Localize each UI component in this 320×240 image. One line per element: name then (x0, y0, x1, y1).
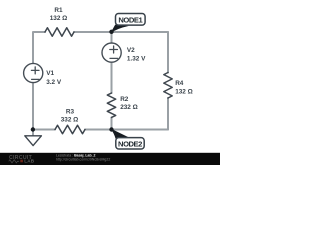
resistor R3 (55, 125, 85, 133)
node A junction dot top (109, 30, 113, 34)
svg-text:NODE2: NODE2 (118, 139, 142, 148)
svg-text:R3: R3 (66, 109, 75, 116)
svg-text:NODE1: NODE1 (118, 15, 143, 24)
voltage source V1 (24, 63, 43, 82)
label R3 value (61, 109, 79, 124)
wire top horizontal right segment (74, 31, 168, 33)
label R2 value (120, 96, 138, 111)
ground (25, 136, 42, 146)
svg-text:V1: V1 (46, 70, 54, 77)
footer CircuitLab logo (9, 155, 35, 164)
svg-text:V2: V2 (127, 47, 135, 54)
wire top horizontal left segment (33, 32, 45, 64)
voltage source V2 (102, 43, 121, 62)
svg-text:LAB: LAB (24, 159, 35, 164)
svg-text:332 Ω: 332 Ω (61, 116, 79, 123)
wire V2 to R2 (111, 62, 113, 93)
NODE1 label tail (110, 25, 129, 34)
svg-text:http://circuitlab.com/c/9Nc8vs: http://circuitlab.com/c/9Nc8vsMg22 (56, 158, 110, 162)
NODE2 label tail (110, 128, 129, 138)
svg-text:3.2 V: 3.2 V (46, 79, 62, 86)
node ground junction dot (31, 127, 35, 131)
footer bar (0, 153, 220, 165)
svg-text:R4: R4 (175, 80, 184, 87)
label R4 value (175, 80, 193, 96)
label V1 value (46, 70, 62, 86)
svg-text:1.32 V: 1.32 V (127, 56, 146, 63)
wire bottom horizontal (33, 129, 168, 131)
resistor R2 (107, 93, 115, 117)
resistor R1 (45, 28, 74, 36)
wire V2 branch top (111, 32, 113, 43)
label R1 value (50, 7, 68, 22)
wire right vertical bottom lead (167, 98, 169, 130)
resistor R4 (164, 73, 172, 99)
node B junction dot bottom (109, 127, 113, 131)
label V2 value (127, 47, 146, 63)
svg-text:R2: R2 (120, 96, 129, 103)
svg-text:132 Ω: 132 Ω (175, 88, 193, 95)
svg-text:232 Ω: 232 Ω (120, 104, 138, 111)
wire left vertical below V1 (32, 83, 34, 136)
svg-text:R1: R1 (54, 7, 63, 14)
wire R2 bottom lead (111, 118, 113, 130)
NODE1 label (116, 14, 146, 26)
NODE2 label (116, 138, 144, 149)
svg-text:132 Ω: 132 Ω (50, 15, 68, 22)
wire right vertical top lead (167, 32, 169, 73)
